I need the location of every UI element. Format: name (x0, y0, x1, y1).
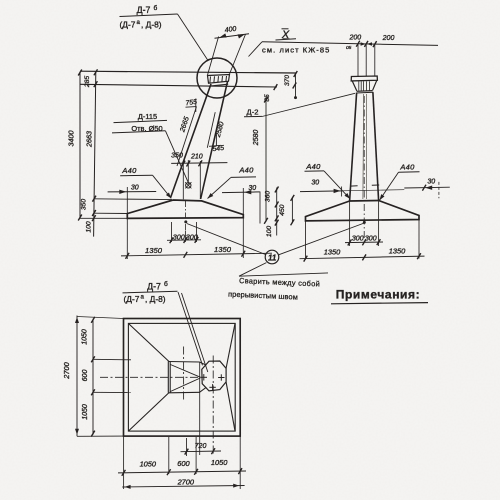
svg-text:1050: 1050 (211, 458, 228, 467)
svg-text:350: 350 (80, 199, 87, 211)
svg-text:Д-115: Д-115 (138, 112, 157, 121)
svg-text:Примечания:: Примечания: (336, 288, 420, 302)
svg-text:300: 300 (173, 232, 185, 241)
svg-text:1350: 1350 (324, 248, 341, 257)
svg-text:А40: А40 (238, 166, 254, 175)
svg-text:200: 200 (348, 35, 361, 42)
svg-text:1050: 1050 (81, 329, 88, 345)
svg-text:100: 100 (266, 226, 273, 238)
svg-text:11: 11 (268, 253, 277, 262)
svg-text:30: 30 (131, 184, 139, 191)
svg-text:а: а (141, 294, 145, 301)
svg-text:2700: 2700 (177, 478, 195, 487)
svg-text:05: 05 (346, 45, 352, 51)
svg-text:1350: 1350 (214, 245, 232, 254)
svg-text:(Д-7: (Д-7 (124, 294, 140, 304)
svg-text:1050: 1050 (140, 460, 157, 469)
svg-text:2663: 2663 (85, 131, 94, 148)
svg-text:200: 200 (382, 35, 395, 42)
svg-text:600: 600 (177, 459, 190, 468)
svg-text:(Д-7: (Д-7 (120, 19, 136, 29)
svg-text:А40: А40 (399, 163, 415, 172)
svg-text:300: 300 (365, 234, 377, 243)
svg-text:А40: А40 (305, 162, 321, 171)
svg-text:545: 545 (212, 145, 224, 153)
svg-text:600: 600 (82, 370, 89, 382)
svg-text:210: 210 (190, 154, 203, 161)
svg-text:см. лист КЖ‑85: см. лист КЖ‑85 (262, 46, 330, 55)
svg-text:Д-2: Д-2 (247, 108, 259, 117)
svg-text:1350: 1350 (389, 246, 406, 255)
svg-text:, Д-8): , Д-8) (145, 294, 166, 304)
svg-text:300: 300 (352, 234, 364, 243)
svg-text:1050: 1050 (82, 404, 89, 420)
svg-text:2580: 2580 (253, 130, 260, 147)
svg-text:1350: 1350 (145, 246, 163, 255)
svg-text:3400: 3400 (67, 131, 76, 147)
svg-text:Д-7: Д-7 (137, 5, 151, 15)
svg-text:Д-7: Д-7 (147, 282, 161, 292)
svg-text:а: а (137, 19, 141, 26)
svg-text:450: 450 (279, 204, 286, 216)
svg-text:30: 30 (311, 180, 319, 187)
svg-text:100: 100 (86, 221, 93, 233)
svg-text:285: 285 (84, 76, 91, 89)
svg-text:б: б (154, 4, 158, 12)
svg-text:, Д-8): , Д-8) (141, 19, 162, 29)
svg-text:350: 350 (171, 153, 183, 160)
svg-text:370: 370 (284, 75, 291, 86)
svg-text:300: 300 (186, 232, 198, 241)
svg-text:А40: А40 (121, 166, 137, 175)
svg-text:720: 720 (195, 443, 207, 450)
svg-text:360: 360 (264, 191, 271, 203)
svg-text:б: б (164, 280, 168, 288)
svg-text:30: 30 (427, 179, 435, 186)
svg-text:2700: 2700 (62, 361, 71, 379)
